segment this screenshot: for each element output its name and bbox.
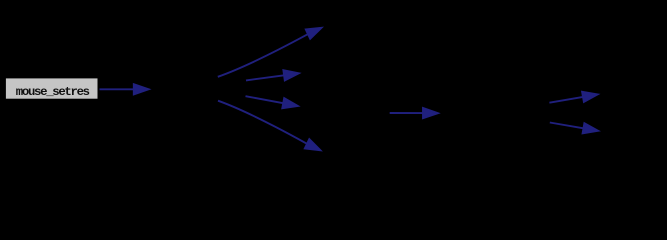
edge node3c to node4 bbox=[390, 108, 438, 118]
edge node2 to node3d bbox=[218, 101, 320, 151]
edge node2 to node3b bbox=[246, 70, 299, 80]
node mouse_setres bbox=[6, 78, 98, 99]
edge node4 to node5 upper bbox=[549, 92, 597, 103]
edge node2 to node3c bbox=[246, 96, 298, 108]
edge node2 to node3a bbox=[218, 28, 322, 77]
edge node4 to node5 lower bbox=[550, 123, 598, 134]
svg-text:mouse_setres: mouse_setres bbox=[16, 85, 90, 99]
edge mouse_setres to node2 bbox=[100, 84, 149, 94]
